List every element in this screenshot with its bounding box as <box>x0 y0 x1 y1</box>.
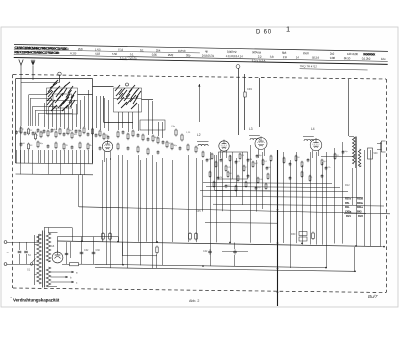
wire <box>80 100 82 129</box>
capacitor <box>47 144 50 148</box>
wire <box>20 150 22 163</box>
resistor <box>152 135 154 143</box>
svg-text:R23: R23 <box>358 214 363 218</box>
wire AVC bus <box>79 207 390 214</box>
svg-text:3.8: 3.8 <box>270 55 274 59</box>
resistor R14 <box>156 246 158 255</box>
wire <box>26 242 28 250</box>
capacitor <box>71 145 74 149</box>
terminal pickup <box>236 65 240 69</box>
junction <box>229 242 231 244</box>
resistor <box>215 161 217 168</box>
wire <box>38 113 72 115</box>
tube V3 (EBL) <box>255 136 267 149</box>
resistor <box>79 130 81 138</box>
wire <box>244 74 246 92</box>
resistor <box>147 148 149 156</box>
resistor <box>40 131 42 139</box>
resistor <box>137 146 139 154</box>
winding <box>46 233 50 262</box>
svg-text:L2: L2 <box>197 133 201 137</box>
svg-text:5 50: 5 50 <box>112 52 118 56</box>
junction <box>325 267 327 269</box>
capacitor C60 <box>92 252 96 254</box>
wire <box>122 242 124 255</box>
wire bus <box>203 183 332 184</box>
wire B+ <box>58 236 119 238</box>
wire <box>29 94 47 96</box>
wire <box>104 98 106 128</box>
winding <box>37 234 41 284</box>
capacitor <box>20 142 23 146</box>
wire <box>64 108 66 129</box>
resistor <box>63 143 65 151</box>
capacitor <box>307 158 310 162</box>
wire <box>222 251 248 253</box>
junction <box>301 242 303 244</box>
wire bus <box>203 196 363 197</box>
resistor R25 field coil <box>368 148 373 159</box>
wire <box>72 163 74 174</box>
svg-text:1: 1 <box>286 25 290 34</box>
capacitor <box>217 176 220 180</box>
capacitor <box>289 176 292 180</box>
winding <box>353 137 356 164</box>
svg-text:R40a: R40a <box>357 201 363 205</box>
resistor <box>237 175 239 182</box>
IF transformer can <box>219 152 248 179</box>
wire <box>142 99 154 101</box>
resistor <box>109 232 112 241</box>
wire <box>44 103 46 127</box>
wire <box>44 150 46 163</box>
resistor <box>132 130 134 138</box>
svg-text:24.8.05.31: 24.8.05.31 <box>202 54 215 58</box>
resistor <box>295 155 297 162</box>
svg-text:R5L: R5L <box>345 201 350 205</box>
resistor <box>283 157 285 164</box>
wire <box>162 122 164 138</box>
wire <box>49 286 58 288</box>
svg-text:1M 50: 1M 50 <box>178 49 186 53</box>
svg-text:12u: 12u <box>381 57 386 61</box>
svg-text:250: 250 <box>78 47 83 51</box>
wire <box>104 122 134 124</box>
wire <box>302 165 304 245</box>
wire <box>132 112 134 129</box>
resistor <box>270 155 272 162</box>
svg-text:2x50: 2x50 <box>303 51 309 55</box>
wire <box>122 255 157 257</box>
wire <box>316 152 318 245</box>
wire <box>72 150 74 163</box>
svg-text:R1L: R1L <box>345 205 350 209</box>
wire <box>49 232 58 234</box>
wire HT riser <box>348 79 350 136</box>
wire <box>68 150 70 163</box>
resistor <box>245 181 247 188</box>
wire <box>19 254 21 264</box>
capacitor <box>122 130 125 134</box>
wire V1 pin <box>110 151 112 160</box>
resistor <box>189 232 192 241</box>
capacitor <box>256 154 259 158</box>
wire <box>102 160 104 241</box>
capacitor <box>95 133 98 137</box>
wire <box>259 78 261 127</box>
wire coil core <box>303 136 314 138</box>
wire <box>20 163 22 174</box>
svg-text:C60: C60 <box>96 249 101 252</box>
capacitor <box>266 166 269 170</box>
wire <box>76 104 78 127</box>
capacitor <box>179 146 182 150</box>
wire <box>354 247 356 271</box>
resistor <box>55 131 57 139</box>
wire <box>321 156 355 158</box>
dashed frame bottom <box>13 288 386 293</box>
capacitor C49 <box>244 92 246 97</box>
wire <box>364 150 366 246</box>
wire <box>70 242 72 258</box>
wire HT bus <box>58 241 385 247</box>
capacitor <box>107 135 110 139</box>
wire <box>48 150 50 163</box>
wire <box>76 150 78 163</box>
svg-text:TC2: TC2 <box>118 48 124 52</box>
capacitor <box>162 140 165 144</box>
resistor <box>28 128 30 136</box>
wire mains L <box>7 242 39 244</box>
wire <box>30 98 32 126</box>
resistor <box>142 134 144 142</box>
resistor <box>227 171 229 178</box>
resistor <box>20 127 22 135</box>
resistor <box>211 153 213 160</box>
wire <box>26 254 28 264</box>
capacitor <box>51 128 54 132</box>
wire <box>60 105 62 127</box>
voltage table <box>344 197 366 219</box>
wire <box>84 96 86 127</box>
wire <box>40 150 42 163</box>
resistor <box>47 130 49 138</box>
resistor <box>267 173 269 180</box>
wire <box>334 148 336 244</box>
wire <box>234 255 236 266</box>
svg-text:R12 C13 R14 C15 R16 C17 R18 C1: R12 C13 R14 C15 R16 C17 R18 C19 <box>15 50 60 55</box>
wire <box>78 175 80 207</box>
tube V4 (output) <box>310 138 322 151</box>
resistor <box>67 128 69 136</box>
resistor R31 <box>312 232 315 241</box>
svg-text:4,18: 4,18 <box>95 52 101 56</box>
svg-text:R30: R30 <box>291 233 296 236</box>
wire <box>68 106 70 128</box>
wire <box>342 142 344 244</box>
resistor <box>55 142 57 150</box>
wire <box>84 150 86 163</box>
resistor <box>166 141 168 149</box>
coil L4 <box>304 139 314 141</box>
wire <box>62 264 70 266</box>
wire <box>88 90 90 130</box>
wire <box>60 163 62 174</box>
resistor <box>28 143 30 151</box>
junction <box>354 270 356 272</box>
capacitor C62 <box>80 252 84 254</box>
svg-text:4.11.8.8.8.4.14: 4.11.8.8.8.4.14 <box>226 54 243 58</box>
wire <box>138 155 140 242</box>
wire <box>322 162 324 245</box>
resistor <box>87 143 89 151</box>
output transformer T2 <box>349 137 361 169</box>
junction <box>277 209 279 211</box>
wire <box>84 163 86 174</box>
wire <box>122 112 124 128</box>
capacitor C63 <box>18 251 22 253</box>
capacitor <box>157 150 160 154</box>
resistor R4 <box>70 263 79 266</box>
svg-text:0,1 2k2: 0,1 2k2 <box>362 57 371 61</box>
wire <box>48 107 50 129</box>
wire <box>326 152 328 268</box>
junction <box>122 264 124 266</box>
capacitor <box>15 130 18 134</box>
wire <box>352 168 354 205</box>
wire <box>108 100 110 131</box>
wire mains N <box>7 264 34 266</box>
svg-text:2.B: 2.B <box>283 55 287 59</box>
wire AVC arrow line <box>199 84 201 122</box>
junction <box>117 241 119 243</box>
svg-text:0,05: 0,05 <box>152 53 158 57</box>
winding <box>358 149 360 167</box>
wire IF divider <box>232 152 234 179</box>
resistor <box>301 161 303 168</box>
wire <box>92 150 94 163</box>
wire <box>148 100 150 135</box>
wire <box>66 242 68 264</box>
wire bus <box>206 187 340 188</box>
junction <box>156 241 158 243</box>
speaker <box>377 141 386 152</box>
svg-text:50 2.9: 50 2.9 <box>312 56 320 60</box>
resistor <box>225 165 227 172</box>
capacitor <box>247 174 250 178</box>
svg-text:S1: S1 <box>27 268 31 272</box>
wire V1 pin <box>104 151 106 162</box>
wire V2 pin <box>220 151 222 159</box>
svg-text:D 60: D 60 <box>256 30 272 36</box>
svg-text:2M2: 2M2 <box>168 53 174 57</box>
capacitor <box>255 186 258 190</box>
wire <box>202 160 204 212</box>
resistor <box>265 183 267 190</box>
capacitor <box>147 137 150 141</box>
rectifier tube V5 (AZ1) <box>52 251 63 263</box>
dashed frame top <box>13 75 386 80</box>
wire <box>38 150 40 163</box>
wire <box>242 152 244 205</box>
resistor <box>195 232 198 241</box>
wire bus <box>200 191 348 192</box>
svg-text:R43: R43 <box>357 209 362 213</box>
wire <box>82 175 84 241</box>
coil L3 <box>250 138 260 140</box>
svg-text:R27a: R27a <box>345 197 351 201</box>
wire <box>52 150 54 163</box>
wire <box>79 263 96 265</box>
wire <box>38 114 40 127</box>
svg-text:22k: 22k <box>327 167 330 169</box>
wire <box>60 150 62 163</box>
junction <box>277 242 279 244</box>
capacitor <box>75 129 78 133</box>
wire tuner right <box>92 79 94 164</box>
dashed frame right <box>386 79 388 293</box>
resistor <box>103 133 105 141</box>
wire <box>118 155 120 242</box>
resistor block R30 <box>299 232 307 236</box>
wire <box>310 152 312 245</box>
svg-text:Bu/7: Bu/7 <box>368 294 378 299</box>
wire <box>222 152 224 211</box>
junction <box>277 291 279 293</box>
svg-text:C62: C62 <box>84 249 89 252</box>
wire <box>28 150 30 163</box>
wire main HT rail <box>277 150 279 306</box>
wire <box>205 222 278 225</box>
winding <box>46 267 50 287</box>
capacitor <box>99 146 102 150</box>
resistor <box>309 175 311 182</box>
wire coil core <box>249 135 260 137</box>
resistor <box>83 127 85 135</box>
capacitor <box>43 129 46 133</box>
wire <box>32 150 34 163</box>
wire <box>128 112 130 132</box>
heater tap c <box>51 281 75 283</box>
junction <box>355 245 357 247</box>
wire <box>93 237 95 264</box>
capacitor <box>137 133 140 137</box>
resistor <box>99 130 101 138</box>
wire <box>210 152 212 266</box>
wire <box>162 158 164 266</box>
wire V3 pin <box>258 149 260 158</box>
mains input terminals <box>4 241 9 266</box>
wire <box>118 112 120 130</box>
resistor <box>171 143 173 151</box>
svg-text:6,3 V 0,3 A: 6,3 V 0,3 A <box>252 58 266 62</box>
svg-text:R12: R12 <box>345 184 350 187</box>
resistor <box>127 133 129 141</box>
wire <box>188 155 190 242</box>
capacitor <box>32 131 35 135</box>
wire <box>138 104 140 131</box>
parts list table <box>14 44 388 70</box>
band switch S3 <box>114 83 142 112</box>
wire coil core <box>197 141 209 143</box>
junction <box>383 246 385 248</box>
band switch S2 <box>46 72 78 114</box>
resistor <box>117 131 119 139</box>
resistor <box>187 144 189 152</box>
wire <box>88 150 90 163</box>
svg-text:Abb. 2: Abb. 2 <box>189 299 199 303</box>
wire <box>118 237 120 242</box>
wire <box>214 155 216 190</box>
antenna A2 <box>31 60 35 80</box>
wire <box>20 126 22 163</box>
wire <box>103 96 105 122</box>
wire <box>33 106 58 108</box>
resistor <box>334 153 336 160</box>
wire <box>290 160 292 268</box>
wire <box>80 150 82 163</box>
svg-text:0,1: 0,1 <box>140 48 144 52</box>
wire V4 pin <box>318 150 320 156</box>
resistor <box>301 171 303 178</box>
wire <box>152 155 154 268</box>
resistor <box>257 177 259 184</box>
resistor <box>321 159 323 166</box>
wire <box>81 237 83 265</box>
resistor <box>239 153 241 160</box>
wire V4 pin <box>312 150 314 158</box>
capacitor <box>342 150 345 154</box>
resistor <box>262 159 264 166</box>
wire <box>52 104 54 127</box>
wire <box>356 168 358 246</box>
wire <box>380 142 382 246</box>
wire <box>24 150 26 163</box>
capacitor <box>37 128 40 132</box>
resistor <box>195 146 197 154</box>
wire bus <box>95 264 326 267</box>
wire <box>48 163 50 174</box>
resistor R6 <box>181 134 183 142</box>
resistor <box>213 181 215 188</box>
resistor R5 <box>175 129 177 137</box>
wire <box>16 150 18 163</box>
svg-text:TRQ TR 4712: TRQ TR 4712 <box>300 64 318 68</box>
wire <box>100 96 102 130</box>
svg-text:30p: 30p <box>186 53 191 57</box>
power transformer T1 <box>35 228 73 288</box>
svg-text:2M: 2M <box>219 177 222 179</box>
wire <box>122 155 124 265</box>
tube V2 (IF amp) <box>219 140 229 152</box>
resistor <box>157 137 159 145</box>
svg-text:R21: R21 <box>346 214 351 218</box>
junction <box>81 240 83 242</box>
wire chassis bus <box>95 268 355 272</box>
svg-text:C4Da: C4Da <box>345 209 352 213</box>
heater tap a <box>51 271 75 273</box>
wire tuner left <box>15 79 17 164</box>
wire <box>106 158 108 265</box>
svg-text:L4: L4 <box>311 127 315 131</box>
coil box L1b <box>140 120 165 130</box>
resistor <box>37 141 39 149</box>
wire <box>21 82 60 84</box>
wire tuner top <box>16 78 93 80</box>
svg-text:900: 900 <box>374 152 379 155</box>
capacitor <box>24 131 27 135</box>
resistor <box>209 171 211 178</box>
